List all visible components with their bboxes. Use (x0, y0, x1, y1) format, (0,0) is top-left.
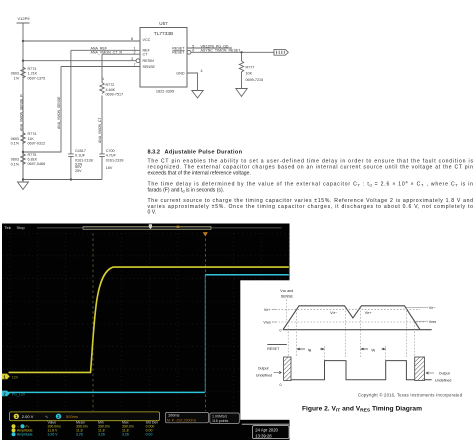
svg-text:farads (F) and td is in second: farads (F) and td is in seconds (s). (148, 187, 225, 193)
wire RESET pin5 (VR12P9_PG_OD) (187, 47, 232, 49)
svg-text:4.64K: 4.64K (106, 88, 116, 92)
svg-text:CT: CT (143, 53, 149, 57)
resistor R777 (239, 61, 243, 88)
svg-text:Vіт+: Vіт+ (365, 311, 372, 315)
svg-text:U57: U57 (159, 21, 168, 26)
svg-text:3.26 V: 3.26 V (48, 433, 59, 437)
node pulse2 rise (385, 346, 387, 360)
svg-text:exceeds that of the internal r: exceeds that of the internal reference v… (148, 170, 251, 176)
svg-text:RESET: RESET (172, 51, 185, 55)
axis 0 baseline (283, 329, 432, 331)
td arrow 2 (361, 348, 386, 351)
resistor R775 (21, 154, 25, 165)
svg-text:1.00MS/s: 1.00MS/s (212, 414, 227, 418)
svg-text:6.81K: 6.81K (28, 158, 38, 162)
svg-text:0.1%: 0.1% (11, 142, 20, 146)
svg-text:0697-0466: 0697-0466 (28, 162, 46, 166)
svg-text:V12P9: V12P9 (17, 16, 30, 21)
svg-text:Stop: Stop (17, 225, 26, 230)
wire RESET output waveform (291, 361, 432, 380)
leader VIT- right (406, 306, 428, 308)
svg-text:GND: GND (176, 71, 185, 75)
node rail/ground (22, 178, 24, 180)
svg-text:0: 0 (280, 383, 282, 387)
svg-text:6: 6 (192, 49, 194, 53)
svg-text:0697-1375: 0697-1375 (28, 76, 46, 80)
svg-text:varies approximately ±5%. Once: varies approximately ±5%. Once the timin… (148, 204, 474, 210)
svg-text:SENSE: SENSE (281, 294, 294, 298)
svg-text:Vіт+: Vіт+ (264, 308, 271, 312)
figure white panel (240, 280, 474, 420)
svg-text:4: 4 (201, 69, 203, 73)
svg-text:Vгеѕ: Vгеѕ (429, 320, 437, 324)
svg-text:C700: C700 (106, 149, 115, 153)
node pulse1 rise (324, 346, 326, 360)
svg-text:RESIN: RESIN (143, 59, 155, 63)
resistor R774 (21, 133, 25, 144)
capacitor C700 (99, 154, 105, 157)
wire R772 to C700 (101, 96, 103, 154)
svg-text:R775: R775 (28, 153, 37, 157)
td arrow 1 (297, 348, 325, 351)
capacitor C4517 (68, 154, 74, 157)
svg-text:0.1UF: 0.1UF (75, 154, 86, 158)
node notch recross VIT+ (360, 308, 362, 358)
svg-text:ANA_VMON_SENSE_R: ANA_VMON_SENSE_R (19, 94, 23, 131)
date box (253, 426, 290, 439)
op chip U57 box (140, 28, 187, 88)
svg-text:3: 3 (131, 57, 133, 61)
node rail/RESIN (22, 60, 24, 62)
svg-text:1%: 1% (14, 77, 20, 81)
svg-text:0699-7517: 0699-7517 (106, 93, 124, 97)
node R777/wire (240, 51, 242, 53)
waveform VCC/SENSE trapezoid (283, 306, 420, 330)
wire ANA_VMON_SENSE vertical (23, 67, 61, 153)
svg-text:500ms: 500ms (66, 414, 78, 419)
svg-text:Output: Output (258, 366, 269, 370)
svg-text:16V: 16V (106, 166, 113, 170)
channel 1 marker (2, 374, 10, 380)
pin 6 bubble (187, 50, 191, 54)
svg-text:0.00: 0.00 (146, 433, 153, 437)
cursor dashed line trigger (204, 233, 206, 411)
svg-text:7: 7 (133, 63, 135, 67)
resistor R773 (21, 67, 25, 78)
pin 3 bubble (136, 59, 140, 63)
svg-text:0.1%: 0.1% (11, 162, 20, 166)
trace CH2 cyan PG_12V (9, 391, 205, 393)
wire VCC (rail to pin 8) (23, 40, 140, 42)
wire REF vertical to C4517 (70, 50, 72, 153)
measurement row CH2 amplitude (12, 432, 153, 436)
separator line above date (242, 423, 289, 425)
readout box horizontal (166, 412, 209, 422)
svg-text:VCC: VCC (143, 38, 151, 42)
svg-text:2: 2 (133, 50, 135, 54)
svg-text:10K: 10K (246, 72, 253, 76)
wire ANA_VMON_CT_R (to pin 2) (102, 53, 140, 55)
channel 2 marker (2, 391, 10, 397)
svg-text:0603: 0603 (11, 137, 19, 141)
schematic text labels (11, 16, 264, 173)
wire R773-R774 segment (22, 79, 24, 133)
svg-text:0603: 0603 (11, 72, 19, 76)
svg-text:1.21K: 1.21K (28, 72, 38, 76)
svg-text:25V: 25V (75, 169, 82, 173)
svg-text:Amplitude: Amplitude (17, 433, 33, 437)
svg-text:Vсс and: Vсс and (280, 289, 293, 293)
svg-text:12V: 12V (12, 375, 19, 379)
svg-text:Vіт−: Vіт− (429, 306, 436, 310)
wire RESIN (rail to pin 3) (23, 60, 136, 62)
wire CT vertical to R772 (101, 54, 103, 82)
wire V12P9 rail (22, 41, 24, 180)
node fall crosses VIT- (405, 308, 407, 358)
svg-text:ANA_VMON_CT_R: ANA_VMON_CT_R (91, 51, 123, 55)
svg-text:M ▼ -292.2300ms: M ▼ -292.2300ms (167, 419, 196, 423)
wire RESET# pin6 (ASYNC_TIMON_RESET) (191, 51, 274, 53)
svg-text:Undefined: Undefined (435, 378, 451, 382)
wire ground rail bottom (23, 157, 102, 180)
svg-text:8.3.2: 8.3.2 (148, 149, 160, 155)
svg-text:Tek: Tek (5, 225, 11, 230)
resistor R772 (100, 83, 104, 94)
svg-text:ANA_VMON_CT: ANA_VMON_CT (98, 118, 102, 143)
junction dots (22, 40, 243, 181)
svg-text:24 Apr 2020: 24 Apr 2020 (255, 427, 278, 432)
node ramp crosses VRES (287, 322, 289, 357)
paragraph 1 (148, 159, 474, 216)
node fall crosses VRES (414, 322, 416, 357)
svg-text:TL7733B: TL7733B (154, 31, 173, 37)
svg-text:2.00 V: 2.00 V (22, 414, 34, 419)
dashed verticals (287, 300, 415, 361)
hatched box right (output undefined) (415, 357, 425, 381)
svg-text:0699-7215: 0699-7215 (246, 78, 264, 82)
svg-text:SENSE: SENSE (143, 65, 156, 69)
svg-text:∿: ∿ (45, 414, 48, 419)
ground (GND pin) (192, 91, 203, 99)
svg-text:R777: R777 (246, 65, 255, 69)
node rail/VCC (22, 40, 24, 42)
leader VRES right (416, 320, 429, 322)
wire R777 stem (241, 52, 243, 61)
dashed level VIT+ (272, 308, 420, 310)
svg-text:0161-2339: 0161-2339 (106, 159, 124, 163)
node R774/R775 sense tap (22, 151, 24, 153)
svg-text:0603: 0603 (11, 158, 19, 162)
power symbol V12P9 (17, 23, 30, 41)
svg-text:1: 1 (102, 77, 104, 81)
svg-text:Undefined: Undefined (256, 373, 272, 377)
svg-text:Figure 2. VIT and VRES Timing: Figure 2. VIT and VRES Timing Diagram (302, 406, 422, 412)
svg-text:3.26: 3.26 (76, 433, 83, 437)
svg-text:0: 0 (280, 329, 282, 333)
svg-text:C4517: C4517 (75, 149, 86, 153)
graticule dotted grid (3, 233, 289, 411)
svg-text:ASYNC_TIMON_RESET: ASYNC_TIMON_RESET (201, 49, 242, 53)
off-page connector tag (274, 49, 288, 55)
svg-text:4.7UF: 4.7UF (106, 154, 117, 158)
svg-text:Vіт−: Vіт− (330, 311, 337, 315)
node VCC label leader (286, 300, 288, 323)
svg-text:11K: 11K (28, 137, 35, 141)
dashed level VRES (272, 321, 424, 323)
svg-text:8: 8 (131, 37, 133, 41)
svg-text:116 points: 116 points (212, 419, 229, 423)
svg-text:R773: R773 (28, 67, 37, 71)
svg-text:Adjustable Pulse Duration: Adjustable Pulse Duration (165, 149, 243, 155)
svg-text:R774: R774 (28, 132, 37, 136)
figure text labels (256, 289, 451, 387)
trace CH1 yellow 12V (9, 267, 289, 372)
svg-text:R772: R772 (106, 83, 115, 87)
svg-text:PG_12V: PG_12V (12, 393, 26, 397)
svg-text:Output: Output (439, 371, 450, 375)
node notch crosses VIT- (345, 308, 347, 358)
svg-text:Copyright © 2016, Texas Instru: Copyright © 2016, Texas Instruments Inco… (358, 392, 463, 397)
RESET# overbar line (173, 49, 185, 51)
trigger position marker (203, 232, 208, 236)
svg-text:3.26: 3.26 (122, 433, 129, 437)
ground (R777) (236, 89, 247, 97)
ground (resistor chain) (18, 180, 29, 190)
svg-text:RESET: RESET (267, 347, 280, 351)
cursor dashed line a (92, 233, 94, 411)
svg-text:13:39:28: 13:39:28 (255, 433, 272, 438)
svg-text:Vгеѕ: Vгеѕ (263, 321, 271, 325)
readout box sample rate (210, 413, 240, 423)
svg-text:ANA_VMON_SENSE: ANA_VMON_SENSE (57, 96, 61, 129)
svg-text:100ms: 100ms (168, 414, 179, 418)
readout box CH1/CH2 (10, 412, 160, 421)
wire SENSE (to pin 7) (61, 66, 140, 68)
measurement table headers (48, 420, 159, 424)
svg-text:1822-3395: 1822-3395 (156, 89, 174, 93)
node C4517/ground rail (70, 178, 72, 180)
svg-text:0697-0312: 0697-0312 (28, 141, 46, 145)
measurement row CH1 amplitude (12, 428, 153, 432)
scope background (2, 224, 290, 440)
wire ANA_REF (to pin 1) (71, 49, 140, 51)
wire R775 to rail (22, 166, 24, 180)
wire GND pin4 (187, 73, 198, 91)
svg-text:0 V.: 0 V. (148, 210, 157, 216)
svg-text:3.26: 3.26 (98, 433, 105, 437)
scope record bar (37, 227, 282, 229)
measurement row delay (12, 424, 155, 428)
node ramp crosses VIT+ (296, 309, 298, 357)
hatched box left (output undefined) (284, 357, 291, 381)
